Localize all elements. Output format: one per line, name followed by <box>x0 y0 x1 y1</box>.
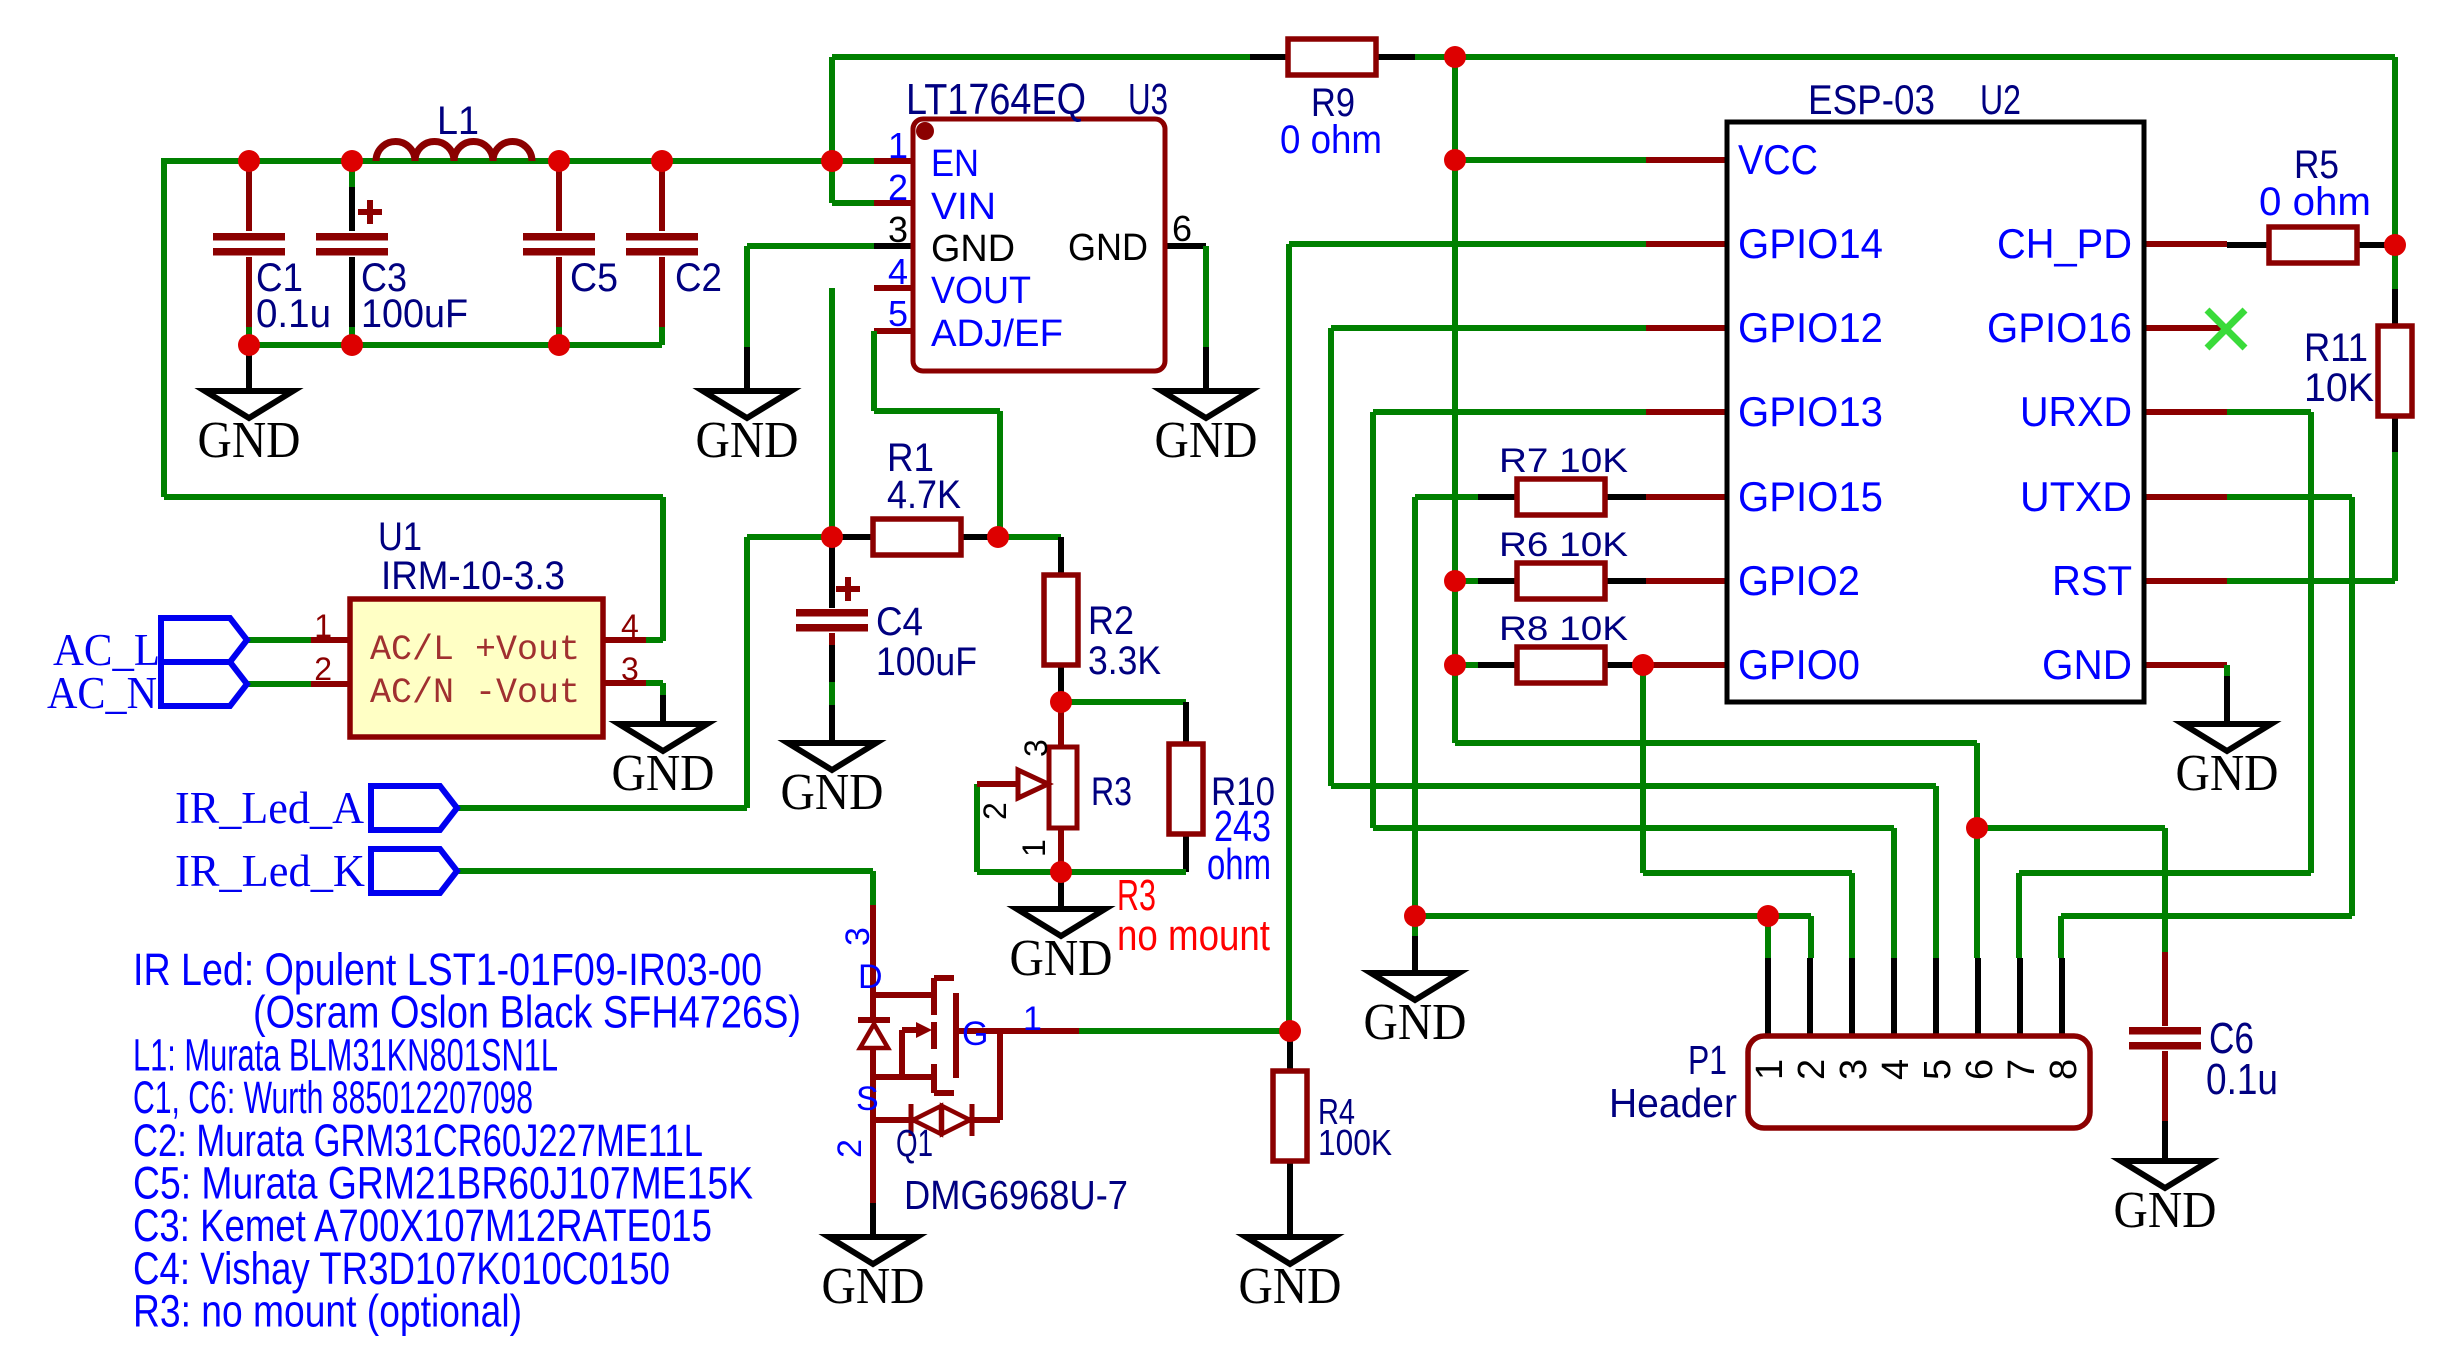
svg-text:3: 3 <box>839 927 877 946</box>
svg-text:R8 10K: R8 10K <box>1499 610 1628 648</box>
svg-text:S: S <box>856 1080 879 1118</box>
svg-text:GPIO0: GPIO0 <box>1738 641 1860 688</box>
svg-text:5: 5 <box>1917 1059 1959 1080</box>
svg-text:1: 1 <box>1749 1059 1791 1080</box>
svg-text:GND: GND <box>2042 641 2132 688</box>
svg-text:AC_N: AC_N <box>47 667 157 718</box>
svg-text:R11: R11 <box>2304 326 2368 370</box>
svg-text:AC/N -Vout: AC/N -Vout <box>370 673 580 713</box>
svg-text:R3: no mount (optional): R3: no mount (optional) <box>133 1286 522 1337</box>
svg-text:3.3K: 3.3K <box>1088 639 1161 683</box>
svg-text:1: 1 <box>1023 1000 1042 1038</box>
svg-text:1: 1 <box>314 608 332 644</box>
svg-text:100K: 100K <box>1318 1122 1392 1163</box>
svg-text:0.1u: 0.1u <box>2206 1055 2278 1104</box>
svg-text:R2: R2 <box>1088 599 1134 643</box>
svg-text:GPIO16: GPIO16 <box>1987 304 2132 351</box>
svg-text:2: 2 <box>831 1139 869 1158</box>
svg-text:3: 3 <box>1833 1059 1875 1080</box>
svg-text:6: 6 <box>1959 1059 2001 1080</box>
svg-text:U1: U1 <box>378 515 422 559</box>
svg-text:C5: C5 <box>570 256 618 300</box>
svg-text:100uF: 100uF <box>876 640 977 684</box>
svg-text:no mount: no mount <box>1117 911 1270 960</box>
svg-text:ESP-03: ESP-03 <box>1808 76 1935 123</box>
svg-text:GND: GND <box>1068 227 1148 269</box>
svg-text:L1: L1 <box>437 99 479 143</box>
svg-text:Header: Header <box>1609 1080 1737 1126</box>
svg-text:EN: EN <box>931 143 979 185</box>
svg-text:URXD: URXD <box>2020 388 2132 435</box>
svg-text:0.1u: 0.1u <box>256 292 331 336</box>
svg-text:ohm: ohm <box>1207 840 1271 889</box>
svg-text:LT1764EQ: LT1764EQ <box>906 75 1086 124</box>
svg-text:2: 2 <box>1791 1059 1833 1080</box>
svg-text:AC/L +Vout: AC/L +Vout <box>370 630 580 670</box>
svg-text:GPIO2: GPIO2 <box>1738 557 1860 604</box>
svg-text:4.7K: 4.7K <box>887 473 961 517</box>
svg-text:R6 10K: R6 10K <box>1499 526 1628 564</box>
svg-text:GND: GND <box>931 228 1015 270</box>
svg-text:CH_PD: CH_PD <box>1997 220 2132 267</box>
svg-text:3: 3 <box>621 651 639 687</box>
svg-text:1: 1 <box>1016 839 1052 857</box>
svg-text:D: D <box>858 958 883 996</box>
svg-text:VCC: VCC <box>1738 136 1818 183</box>
svg-text:DMG6968U-7: DMG6968U-7 <box>904 1172 1128 1218</box>
svg-text:IR_Led_K: IR_Led_K <box>175 845 365 896</box>
svg-text:0 ohm: 0 ohm <box>2259 180 2371 224</box>
svg-text:4: 4 <box>1875 1059 1917 1080</box>
svg-text:GPIO15: GPIO15 <box>1738 473 1883 520</box>
svg-text:R3: R3 <box>1091 770 1132 814</box>
svg-text:2: 2 <box>977 802 1013 820</box>
svg-text:4: 4 <box>621 608 639 644</box>
svg-text:10K: 10K <box>2304 366 2374 410</box>
svg-text:7: 7 <box>2001 1059 2043 1080</box>
svg-text:Q1: Q1 <box>896 1123 933 1165</box>
svg-text:C2: C2 <box>675 256 722 300</box>
svg-text:3: 3 <box>1018 739 1054 757</box>
svg-text:VOUT: VOUT <box>931 270 1031 312</box>
svg-text:100uF: 100uF <box>361 292 468 336</box>
svg-text:GPIO13: GPIO13 <box>1738 388 1883 435</box>
svg-text:6: 6 <box>1172 208 1192 249</box>
svg-text:5: 5 <box>888 293 908 334</box>
svg-text:GPIO14: GPIO14 <box>1738 220 1883 267</box>
svg-text:3: 3 <box>888 209 908 250</box>
svg-text:VIN: VIN <box>931 186 996 228</box>
svg-text:0 ohm: 0 ohm <box>1280 118 1382 162</box>
svg-text:UTXD: UTXD <box>2020 473 2132 520</box>
svg-text:C4: C4 <box>876 600 923 644</box>
svg-text:4: 4 <box>888 251 908 292</box>
svg-text:P1: P1 <box>1688 1037 1727 1083</box>
svg-text:2: 2 <box>314 651 332 687</box>
svg-text:U3: U3 <box>1128 75 1168 124</box>
svg-text:G: G <box>962 1015 988 1053</box>
svg-text:IR_Led_A: IR_Led_A <box>175 782 364 833</box>
svg-text:IRM-10-3.3: IRM-10-3.3 <box>381 554 565 598</box>
svg-text:2: 2 <box>888 167 908 208</box>
svg-text:R7 10K: R7 10K <box>1499 442 1628 480</box>
svg-text:GPIO12: GPIO12 <box>1738 304 1883 351</box>
svg-text:RST: RST <box>2052 557 2132 604</box>
svg-text:8: 8 <box>2043 1059 2085 1080</box>
svg-text:ADJ/EF: ADJ/EF <box>931 313 1063 355</box>
svg-text:U2: U2 <box>1980 76 2021 123</box>
svg-text:1: 1 <box>888 125 908 166</box>
